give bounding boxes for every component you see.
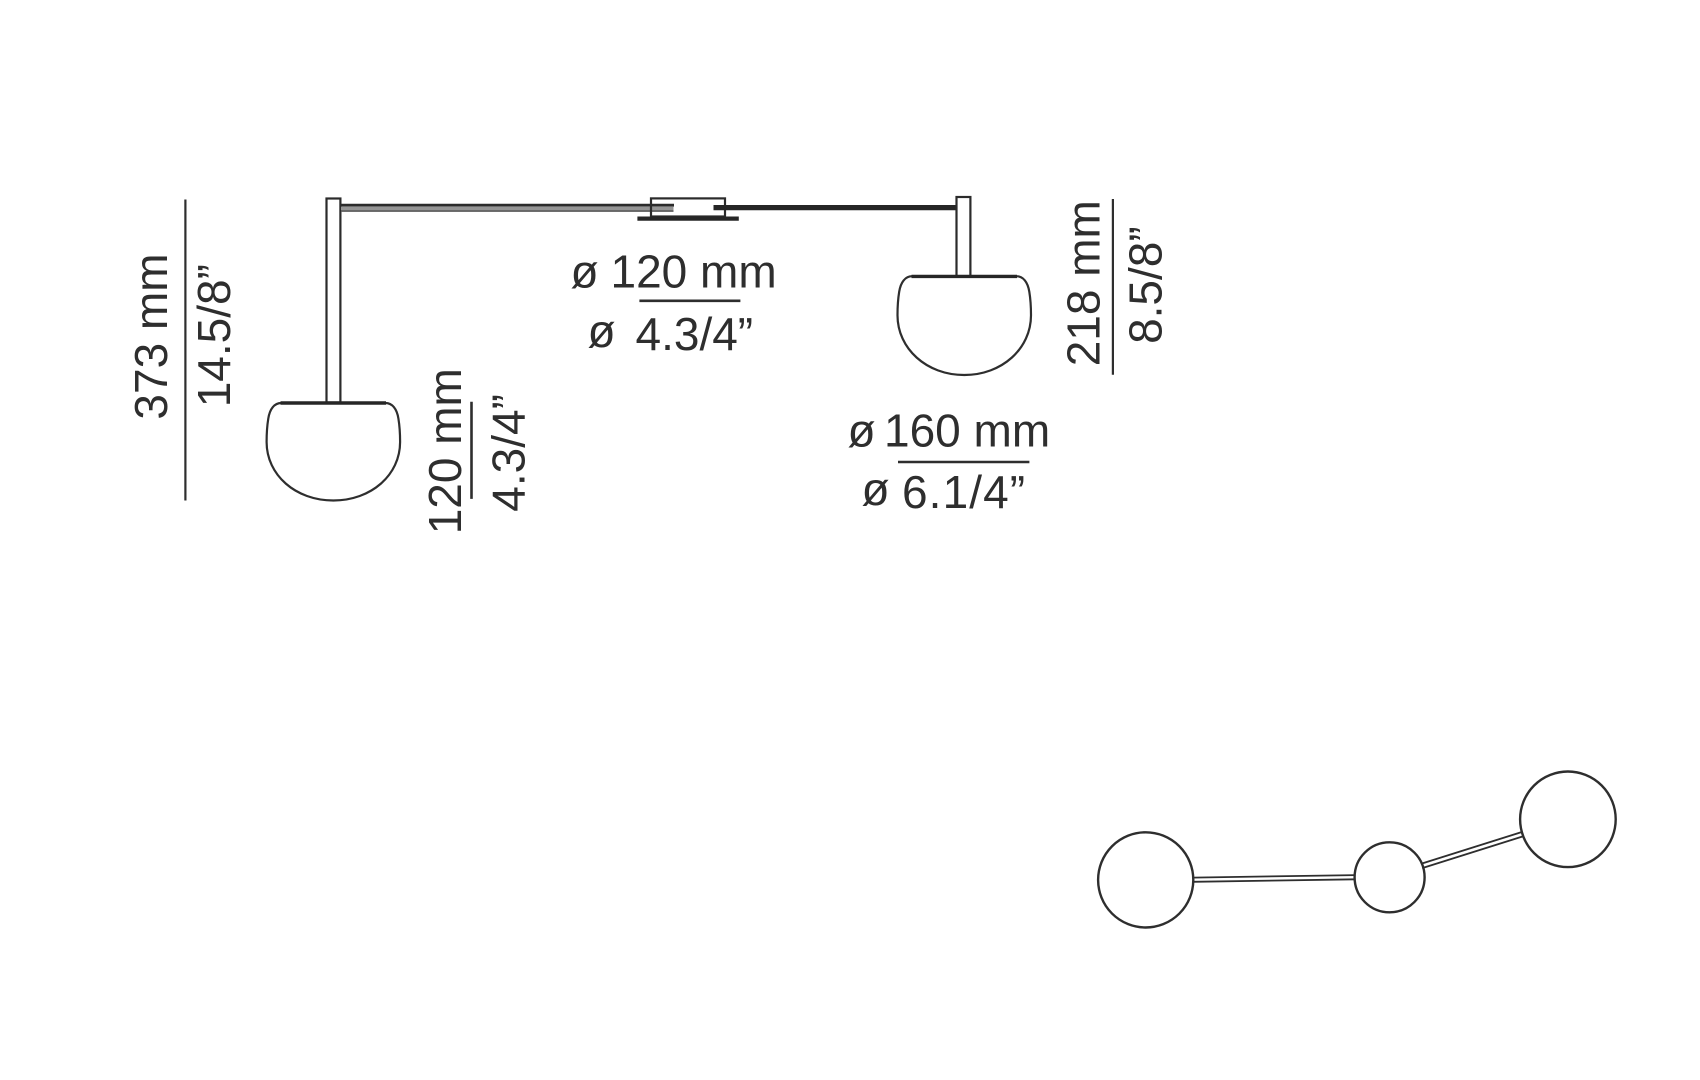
svg-text:160 mm: 160 mm [884,405,1050,457]
label diameter 120 mm [571,246,777,298]
ceiling canopy box [651,198,725,216]
canopy base plate [637,217,738,221]
label diameter 160 mm [848,405,1051,457]
top view: arm middle-right (double line) [1421,832,1524,868]
svg-text:218 mm: 218 mm [1058,200,1110,366]
svg-text:8.5/8”: 8.5/8” [1120,226,1172,344]
fraction bar 120mm/4.3-4 (vertical) [470,402,473,499]
horizontal arm left (gray bar) [340,205,674,211]
svg-text:ø: ø [848,405,876,457]
svg-text:ø: ø [588,305,616,357]
svg-text:4.3/4”: 4.3/4” [483,394,535,512]
dimension line 373mm extent (left fraction bar) [184,200,186,501]
top view: left sphere [1098,832,1193,927]
top view: right sphere [1520,772,1616,868]
fraction bar 160mm/6.1-4 [898,461,1029,464]
fraction bar 120mm/4.3-4 [639,299,740,302]
left rod [327,199,341,403]
label diameter 4.3/4 inch [588,305,754,360]
left diffuser dome [267,403,401,501]
svg-text:14.5/8”: 14.5/8” [188,264,240,407]
right diffuser dome [898,276,1032,375]
svg-text:ø: ø [571,246,599,298]
label diameter 6.1/4 inch [862,463,1027,518]
svg-text:120 mm: 120 mm [611,246,777,298]
svg-text:ø: ø [862,463,890,515]
right rod [957,197,971,277]
svg-text:373 mm: 373 mm [125,253,177,419]
top view: arm left-middle (double line) [1193,875,1356,882]
svg-text:120 mm: 120 mm [419,368,471,534]
dimension line 218mm extent (right fraction bar) [1112,199,1114,375]
top view: middle sphere [1355,842,1425,912]
svg-text:6.1/4”: 6.1/4” [902,466,1026,518]
svg-text:4.3/4”: 4.3/4” [636,308,754,360]
horizontal arm right (black bar) [714,205,957,210]
